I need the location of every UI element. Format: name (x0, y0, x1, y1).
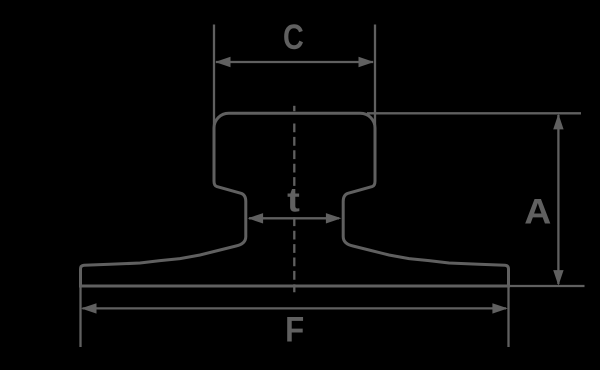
rail profile outline (81, 113, 509, 286)
t arrow right (326, 213, 342, 223)
svg-text:A: A (524, 192, 551, 232)
C arrow left (215, 57, 231, 67)
C extension line right (374, 25, 376, 182)
svg-text:F: F (285, 311, 304, 350)
A arrow bottom (553, 270, 563, 286)
t label knockout (286, 188, 302, 215)
F dimension line (83, 307, 507, 309)
A extension line bottom (509, 285, 585, 287)
F extension line right (507, 286, 509, 347)
A arrow top (553, 114, 563, 129)
C extension line left (213, 25, 215, 182)
A dimension line (557, 115, 559, 284)
A extension line top (367, 112, 581, 114)
F arrow left (81, 303, 97, 313)
centerline tick above head (293, 106, 295, 111)
F arrow right (492, 303, 508, 313)
svg-text:C: C (283, 17, 304, 57)
C arrow right (359, 57, 375, 67)
centerline (dashed) (293, 124, 295, 293)
C dimension line (216, 61, 373, 63)
t arrow left (248, 213, 264, 223)
svg-text:t: t (287, 181, 300, 220)
F extension line left (79, 286, 81, 347)
t dimension line (249, 217, 339, 219)
